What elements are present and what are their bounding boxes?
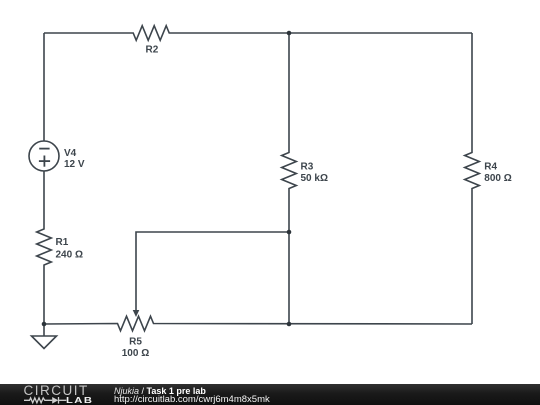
svg-text:50 kΩ: 50 kΩ [301, 173, 328, 184]
svg-text:100 Ω: 100 Ω [122, 348, 149, 359]
svg-text:12 V: 12 V [64, 159, 85, 170]
svg-text:800 Ω: 800 Ω [484, 173, 511, 184]
svg-text:R4: R4 [484, 162, 497, 173]
svg-text:R2: R2 [146, 44, 159, 55]
svg-text:R5: R5 [129, 337, 142, 348]
svg-text:R3: R3 [301, 162, 314, 173]
svg-text:R1: R1 [56, 237, 69, 248]
svg-text:V4: V4 [64, 148, 77, 159]
svg-text:240 Ω: 240 Ω [56, 250, 83, 261]
